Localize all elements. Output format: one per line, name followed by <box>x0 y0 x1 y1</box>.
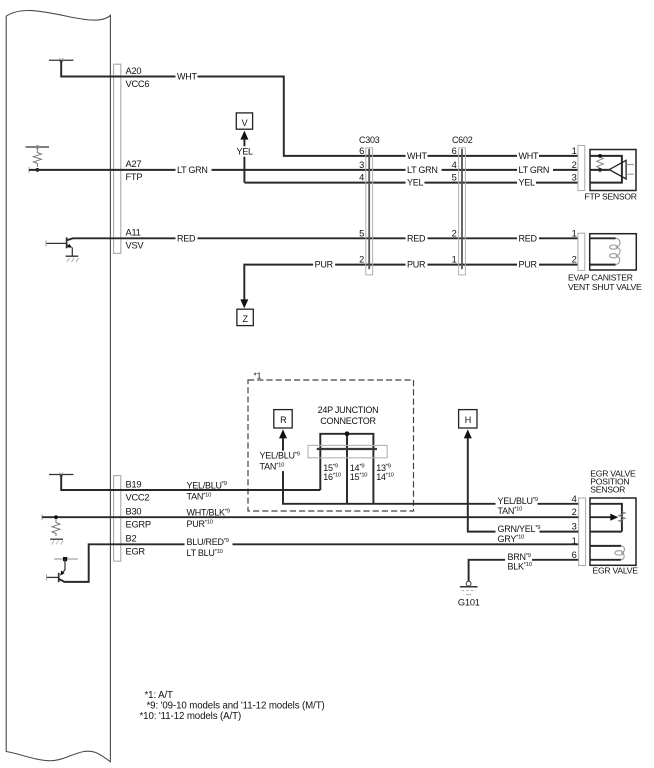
svg-text:C602: C602 <box>452 135 473 145</box>
pin A20 / VCC6 labels <box>126 66 150 89</box>
junction terminal label 15/16 <box>323 463 340 482</box>
svg-text:*10: '11-12 models (A/T): *10: '11-12 models (A/T) <box>140 711 242 722</box>
wire branch to connector R and on to EGR sensor pin 4 <box>283 438 579 504</box>
svg-text:A20: A20 <box>126 66 142 76</box>
connector C303 <box>359 135 380 275</box>
wire GRN/YEL from connector H to EGR sensor pin 3 <box>468 438 579 532</box>
C303 pin numbers <box>359 146 364 265</box>
wire label WHT/BLK / PUR (B30) <box>187 508 230 529</box>
EGR valve solenoid coil <box>590 546 624 560</box>
svg-text:VCC2: VCC2 <box>126 492 150 502</box>
svg-text:1: 1 <box>452 255 457 265</box>
wire label YEL (vertical feed) <box>235 146 254 156</box>
svg-text:YEL/BLU*9: YEL/BLU*9 <box>498 496 538 506</box>
svg-text:2: 2 <box>572 255 577 265</box>
svg-text:YEL: YEL <box>407 178 424 188</box>
svg-text:YEL/BLU*9: YEL/BLU*9 <box>260 451 300 461</box>
svg-text:5: 5 <box>359 228 364 238</box>
svg-text:R: R <box>280 415 287 425</box>
svg-text:PUR*10: PUR*10 <box>187 519 213 529</box>
svg-text:14*10: 14*10 <box>376 472 393 482</box>
svg-text:RED: RED <box>407 233 426 243</box>
wire label BRN / BLK (to EGR valve pin 6) <box>505 552 532 571</box>
chassis ground at B30 filter <box>50 539 63 544</box>
FTP sensor <box>590 150 636 191</box>
solenoid coil (EVAP valve) <box>610 238 621 264</box>
connector R (to another page) <box>274 410 292 439</box>
pin A27 / FTP labels <box>126 159 143 182</box>
svg-text:RED: RED <box>519 233 538 243</box>
svg-text:6: 6 <box>452 146 457 156</box>
svg-text:LT GRN: LT GRN <box>407 165 438 175</box>
EVAP canister vent shut valve <box>590 234 637 270</box>
wire label WHT (A20) <box>176 71 198 81</box>
wire label YEL/BLU / TAN (B19) <box>187 480 227 501</box>
svg-text:2: 2 <box>572 507 577 517</box>
svg-text:EGR: EGR <box>126 547 146 557</box>
svg-text:2: 2 <box>359 255 364 265</box>
EGR VALVE POSITION SENSOR label <box>590 469 636 495</box>
svg-text:BLK*10: BLK*10 <box>508 561 532 571</box>
ECM connector A bracket <box>114 64 121 253</box>
wire B2 BLU/RED (EGR to EGR valve pin 1) <box>59 544 579 582</box>
svg-text:1: 1 <box>572 146 577 156</box>
wire label LT GRN (C303-C602) <box>406 165 442 175</box>
pin B19 / VCC2 labels <box>126 479 150 502</box>
svg-text:4: 4 <box>572 494 577 504</box>
svg-text:A27: A27 <box>126 159 142 169</box>
svg-text:TAN*10: TAN*10 <box>187 492 212 502</box>
svg-text:YEL/BLU*9: YEL/BLU*9 <box>187 480 227 490</box>
svg-text:C303: C303 <box>359 135 380 145</box>
svg-text:PUR: PUR <box>407 260 426 270</box>
svg-text:2: 2 <box>452 228 457 238</box>
svg-text:PUR: PUR <box>519 260 538 270</box>
svg-text:VCC6: VCC6 <box>126 79 150 89</box>
svg-text:A11: A11 <box>126 228 141 238</box>
svg-text:16*10: 16*10 <box>323 472 340 482</box>
wire label RED (to EVAP valve) <box>517 233 539 243</box>
transistor at pin B2 <box>47 557 78 582</box>
svg-text:WHT/BLK*9: WHT/BLK*9 <box>187 508 230 518</box>
dashed option box *1 (A/T) <box>248 371 414 511</box>
svg-text:CONNECTOR: CONNECTOR <box>320 416 376 426</box>
svg-text:*1: A/T: *1: A/T <box>145 690 174 701</box>
internal power symbol at pin B19 <box>49 473 74 477</box>
svg-text:6: 6 <box>572 550 577 560</box>
svg-text:1: 1 <box>572 536 577 546</box>
ground at A11 transistor emitter <box>66 256 79 262</box>
wire label GRN/YEL / GRY (to EGR sensor pin 3) <box>496 524 541 544</box>
ECM (engine control module) body outline <box>6 10 110 761</box>
internal resistor at pin A27 <box>26 146 50 172</box>
pin B2 / EGR labels <box>126 534 146 557</box>
svg-text:*9: '09-10 models and '11-12 m: *9: '09-10 models and '11-12 models (M/T… <box>147 701 325 712</box>
connector C602 <box>452 135 473 275</box>
svg-text:LT GRN: LT GRN <box>519 165 550 175</box>
ECM connector B bracket <box>114 476 121 562</box>
svg-text:YEL: YEL <box>519 178 536 188</box>
wire label WHT (C303-C602) <box>406 151 428 161</box>
svg-text:LT GRN: LT GRN <box>177 165 208 175</box>
wire label LT GRN (A27) <box>176 165 212 175</box>
svg-text:LT BLU*10: LT BLU*10 <box>187 548 223 558</box>
svg-text:RED: RED <box>177 233 196 243</box>
svg-text:GRY*10: GRY*10 <box>498 534 525 544</box>
svg-text:EGR VALVE: EGR VALVE <box>593 565 639 575</box>
ground G101 <box>460 581 478 594</box>
wire label RED (A11) <box>176 233 198 243</box>
svg-text:GRN/YEL*9: GRN/YEL*9 <box>498 524 541 534</box>
svg-text:*1: *1 <box>254 371 262 381</box>
wire A27 LT GRN <box>29 167 579 173</box>
internal filter at pin B30 <box>52 515 60 536</box>
svg-text:FTP: FTP <box>126 172 143 182</box>
EVAP CANISTER VENT SHUT VALVE label <box>568 273 642 292</box>
24P JUNCTION CONNECTOR label <box>318 405 379 426</box>
EVAP valve pin numbers <box>572 228 577 264</box>
svg-text:4: 4 <box>452 160 457 170</box>
EGR sensor/valve pin numbers <box>572 494 577 560</box>
svg-text:2: 2 <box>572 160 577 170</box>
wire B30 WHT/BLK (EGRP to EGR sensor pin 2) <box>42 514 579 520</box>
wire A20 WHT <box>61 60 578 156</box>
wire label WHT (to FTP sensor) <box>517 151 539 161</box>
FTP sensor connector bracket <box>578 146 585 191</box>
svg-text:5: 5 <box>452 173 457 183</box>
EGR position sensor potentiometer <box>590 504 625 532</box>
svg-text:3: 3 <box>572 522 577 532</box>
svg-text:WHT: WHT <box>407 151 427 161</box>
svg-text:24P JUNCTION: 24P JUNCTION <box>318 405 379 415</box>
svg-text:H: H <box>465 415 471 425</box>
svg-text:TAN*10: TAN*10 <box>498 506 523 516</box>
24P junction connector housing bar <box>308 445 387 457</box>
svg-text:B30: B30 <box>126 507 142 517</box>
svg-text:WHT: WHT <box>519 151 539 161</box>
wire label RED (C303-C602) <box>406 233 428 243</box>
svg-text:3: 3 <box>359 160 364 170</box>
svg-text:15*10: 15*10 <box>350 472 367 482</box>
EGR valve position sensor / EGR valve box <box>590 498 636 565</box>
wire label YEL/BLU / TAN (at R branch) <box>258 451 300 472</box>
wire label LT GRN (to FTP sensor) <box>517 165 553 175</box>
svg-text:VENT SHUT VALVE: VENT SHUT VALVE <box>568 282 642 292</box>
svg-text:YEL: YEL <box>237 147 254 157</box>
wire label YEL (C303-C602) <box>406 177 425 187</box>
svg-text:B2: B2 <box>126 534 137 544</box>
svg-text:FTP SENSOR: FTP SENSOR <box>585 192 637 202</box>
wire label PUR (C303-C602) <box>406 259 428 269</box>
svg-text:BLU/RED*9: BLU/RED*9 <box>187 537 229 547</box>
EGR valve connector bracket <box>579 498 586 566</box>
svg-text:EGRP: EGRP <box>126 520 151 530</box>
24P junction connector bus <box>320 431 373 503</box>
pin A11 / VSV labels <box>126 228 145 251</box>
transistor at pin A11 <box>46 237 72 255</box>
svg-text:WHT: WHT <box>177 72 197 82</box>
svg-text:VSV: VSV <box>126 241 145 251</box>
pin B30 / EGRP labels <box>126 507 151 530</box>
wire PUR (to C303 pin 2) <box>244 265 578 304</box>
svg-text:G101: G101 <box>458 598 480 608</box>
wire label PUR (left of C303) <box>313 259 335 269</box>
svg-text:PUR: PUR <box>315 260 334 270</box>
connector V (to another page) <box>236 113 252 183</box>
wire label YEL (to FTP sensor) <box>517 177 536 187</box>
junction terminal label 13/14 <box>376 463 393 482</box>
connector Z (to another page) <box>237 299 253 325</box>
wire label PUR (to EVAP valve) <box>517 259 539 269</box>
svg-text:Z: Z <box>242 314 248 324</box>
svg-text:3: 3 <box>572 173 577 183</box>
svg-text:B19: B19 <box>126 479 142 489</box>
wire YEL (to C303 pin 4) <box>244 182 578 184</box>
EVAP valve connector bracket <box>578 233 585 270</box>
junction terminal label 14/15 <box>350 463 367 482</box>
svg-text:6: 6 <box>359 146 364 156</box>
wire BRN to ground G101 (EGR valve pin 6) <box>469 560 579 582</box>
wire label BLU/RED / LT BLU (B2) <box>185 537 233 558</box>
C602 pin numbers <box>452 146 457 265</box>
wire B19 YEL/BLU (to 24P junction connector) <box>61 475 320 491</box>
svg-text:1: 1 <box>572 228 577 238</box>
wire A11 RED <box>67 238 579 240</box>
wire label YEL/BLU / TAN (to EGR sensor pin 4) <box>496 496 538 516</box>
internal power symbol at pin A20 <box>49 58 74 62</box>
FTP sensor pin numbers <box>572 146 577 183</box>
svg-text:V: V <box>242 118 248 128</box>
svg-text:4: 4 <box>359 173 364 183</box>
connector H (to another page) <box>459 410 477 439</box>
svg-text:SENSOR: SENSOR <box>590 484 625 494</box>
